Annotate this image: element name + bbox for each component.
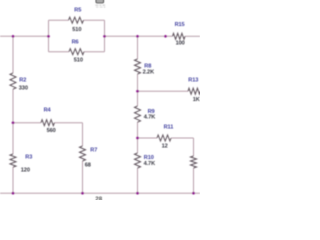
tooltip fragment at top edge <box>95 0 105 8</box>
svg-text:R6: R6 <box>72 40 79 46</box>
resistor R11 zigzag <box>157 135 171 141</box>
svg-text:12: 12 <box>162 143 168 149</box>
node left column R4 tap <box>12 121 15 124</box>
svg-text:4.7K: 4.7K <box>144 161 155 167</box>
node top wire right joint <box>164 35 167 38</box>
svg-text:510: 510 <box>72 27 81 33</box>
svg-text:R4: R4 <box>44 107 52 113</box>
svg-text:R15: R15 <box>175 22 185 28</box>
svg-text:1K: 1K <box>193 97 200 103</box>
node middle column top <box>136 35 139 38</box>
node bottom R7 <box>81 192 84 195</box>
node bottom right <box>192 192 195 195</box>
svg-text:510: 510 <box>74 57 83 63</box>
resistor R9 zigzag <box>135 106 141 122</box>
wire top horizontal left segment <box>0 20 200 193</box>
resistor R5 zigzag <box>69 17 84 23</box>
wire R7 column x=82.5 <box>82 123 84 146</box>
wire middle column x=137.5 <box>137 36 139 59</box>
svg-text:R3: R3 <box>25 155 32 161</box>
svg-text:330: 330 <box>19 85 28 91</box>
svg-text:R2: R2 <box>19 77 26 83</box>
resistor R2 zigzag <box>10 73 16 89</box>
resistor R6 zigzag <box>69 49 84 55</box>
node parallel-block left <box>47 35 50 38</box>
resistor R4 zigzag <box>41 120 54 126</box>
resistor R15 zigzag <box>173 33 186 39</box>
node bottom middle <box>136 192 139 195</box>
node parallel-block right <box>103 35 106 38</box>
svg-text:2.2K: 2.2K <box>143 69 154 75</box>
resistor R14 zigzag (right column, labels off-screen) <box>191 156 197 168</box>
svg-text:R7: R7 <box>90 147 97 153</box>
wire parallel-block right edge <box>104 20 106 52</box>
resistor R8 zigzag <box>135 59 141 74</box>
wire parallel-block bottom branch <box>49 51 70 53</box>
svg-text:100: 100 <box>176 40 185 46</box>
svg-text:560: 560 <box>47 128 56 134</box>
node top-left T <box>12 35 15 38</box>
wire left column x=13 <box>12 36 14 73</box>
svg-text:R5: R5 <box>74 7 81 13</box>
wire bottom horizontal <box>0 192 200 194</box>
wire R11 branch y=138 <box>138 137 158 139</box>
wire R13 branch y=91 <box>138 90 189 92</box>
svg-text:R13: R13 <box>188 77 198 83</box>
node middle column R11 tap <box>136 137 139 140</box>
wire parallel-block left edge <box>48 20 50 52</box>
wire right column x=193.5 <box>193 138 195 156</box>
wire R4 branch y=123 <box>13 122 41 124</box>
svg-text:68: 68 <box>85 163 91 169</box>
svg-text:R11: R11 <box>164 124 174 130</box>
node middle column R13 tap <box>136 90 139 93</box>
svg-text:4.7K: 4.7K <box>144 114 155 120</box>
wire top horizontal mid segment <box>105 35 173 37</box>
resistor R13 zigzag (cut at right edge) <box>188 88 201 94</box>
wire parallel-block top branch <box>49 19 69 21</box>
node bottom-left <box>12 192 15 195</box>
svg-text:120: 120 <box>21 167 30 173</box>
svg-text:28: 28 <box>95 196 102 200</box>
wire top horizontal right segment <box>185 35 200 37</box>
resistor R3 zigzag <box>10 154 16 167</box>
resistor R7 zigzag <box>80 146 86 161</box>
resistor R10 zigzag <box>135 153 141 168</box>
